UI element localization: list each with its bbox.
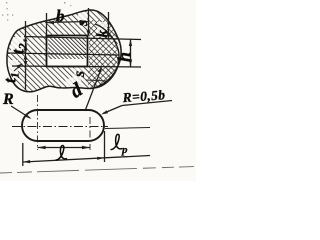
- svg-text:s: s: [74, 20, 91, 27]
- svg-text:s: s: [71, 71, 88, 78]
- label halos (clear hatching behind labels): [6, 12, 130, 100]
- hub section hatching (above bore line): [0, 0, 130, 94]
- right reference line upper: [105, 128, 150, 129]
- broken-out blob outline: [7, 10, 121, 92]
- cross hatching on right lobe (shaft end): [88, 20, 128, 90]
- svg-text:b: b: [56, 7, 65, 26]
- dimension h: dimension line with arrows: [130, 39, 132, 67]
- stray line below key (scan artefact): [86, 80, 108, 81]
- shaft circle arc (right side): [95, 24, 119, 88]
- svg-text:p: p: [121, 144, 128, 156]
- right arc centreline (vertical dash-dot): [89, 117, 91, 150]
- svg-text:k: k: [95, 30, 111, 38]
- dimension l: dimension line, continues right: [23, 156, 150, 163]
- dimension b: extension lines: [46, 13, 48, 35]
- keyseat bottom line, extends as h lower extension: [12, 66, 141, 67]
- scan specks: [2, 2, 71, 21]
- svg-text:R: R: [2, 91, 14, 108]
- keyway outline (stadium / obround): [22, 110, 104, 141]
- shaft section hatching (below bore line): [0, 54, 130, 94]
- dimension b: dimension line with arrows: [47, 22, 89, 23]
- svg-text:t1: t1: [1, 72, 22, 83]
- left arc centreline (vertical dash-dot): [37, 95, 39, 150]
- keyway top line (hub slot bottom), extends as h upper extension: [24, 37, 141, 40]
- table frame line (bottom, dashed): [0, 167, 196, 174]
- key cross-section K (crosshatched rectangle): [47, 36, 88, 67]
- horizontal centreline (dash-dot): [12, 126, 108, 128]
- svg-text:h: h: [114, 52, 134, 62]
- dimension lp: line with outward arrows between arc centres: [38, 147, 91, 149]
- white pocket for key: [46, 35, 90, 68]
- shaft surface / hub bore line: [8, 53, 119, 55]
- leader k: vertical line with arrow down: [108, 12, 110, 38]
- dimension l: extension lines: [22, 143, 24, 166]
- label lp (cursive ell + subscript p): [111, 134, 129, 156]
- arrow of s leader pointing to key corner: [87, 31, 91, 37]
- dimension t1/t2 vertical line: [25, 21, 27, 90]
- leader d: diagonal with arrow to shaft surface: [85, 68, 102, 111]
- label l (cursive ell): [56, 146, 68, 160]
- leader arrow near t1: [14, 64, 22, 71]
